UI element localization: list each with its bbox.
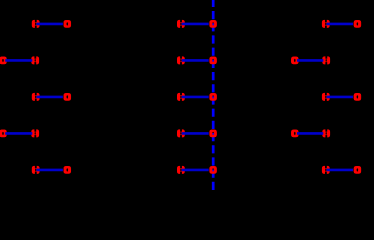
molecule C4 xyxy=(291,129,329,138)
molecule A2 xyxy=(0,56,39,65)
bond O–O of B3 xyxy=(182,96,209,99)
atom O (tail) of A4 xyxy=(32,129,39,138)
bond O–O of A3 xyxy=(37,96,63,99)
bond O–O of A2 xyxy=(5,59,32,62)
atom O (tail) of B1 xyxy=(177,19,184,28)
molecule A5 xyxy=(32,165,71,174)
molecule C5 xyxy=(322,165,361,174)
atom O (head) of B3 xyxy=(210,93,217,100)
bond O–O of A5 xyxy=(37,169,63,172)
bond O–O of A4 xyxy=(5,132,32,135)
molecule C1 xyxy=(322,19,361,28)
atom O (head) of A5 xyxy=(64,166,71,173)
bond O–O of B5 xyxy=(182,169,209,172)
atom O (tail) of C5 xyxy=(322,165,329,174)
atom O (tail) of C3 xyxy=(322,92,329,101)
molecule B4 xyxy=(177,129,216,138)
atom O (head) of C1 xyxy=(354,20,361,27)
bond O–O of B1 xyxy=(182,23,209,26)
atom O (head) of B4 xyxy=(210,130,217,137)
atom O (tail) of B4 xyxy=(177,129,184,138)
bond O–O of C3 xyxy=(327,96,353,99)
atom O (head) of C3 xyxy=(354,93,361,100)
atom O (tail) of A3 xyxy=(32,92,39,101)
symmetry axis: vertical dashed blue line xyxy=(212,0,215,192)
molecule B5 xyxy=(177,165,216,174)
molecule B3 xyxy=(177,92,216,101)
bond O–O of C1 xyxy=(327,23,353,26)
molecule B1 xyxy=(177,19,216,28)
atom O (head) of C2 xyxy=(291,57,298,64)
atom O (tail) of A5 xyxy=(32,165,39,174)
bond O–O of C4 xyxy=(297,132,323,135)
atom O (head) of A2 xyxy=(0,57,7,64)
molecule C2 xyxy=(291,56,329,65)
atom O (head) of B5 xyxy=(210,166,217,173)
bond O–O of B4 xyxy=(182,132,209,135)
atom O (tail) of A2 xyxy=(32,56,39,65)
molecule A4 xyxy=(0,129,39,138)
atom O (tail) of C1 xyxy=(322,19,329,28)
molecule C3 xyxy=(322,92,361,101)
atom O (tail) of B3 xyxy=(177,92,184,101)
bond O–O of B2 xyxy=(182,59,209,62)
atom O (tail) of B5 xyxy=(177,165,184,174)
atom O (head) of A4 xyxy=(0,130,7,137)
atom O (head) of C4 xyxy=(291,130,298,137)
atom O (tail) of C2 xyxy=(323,56,330,65)
molecule A3 xyxy=(32,92,71,101)
molecule B2 xyxy=(177,56,216,65)
atom O (tail) of B2 xyxy=(177,56,184,65)
molecule A1 xyxy=(32,19,71,28)
bond O–O of A1 xyxy=(37,23,63,26)
atom O (tail) of C4 xyxy=(323,129,330,138)
atom O (head) of A1 xyxy=(64,20,71,27)
atom O (tail) of A1 xyxy=(32,19,39,28)
atom O (head) of B1 xyxy=(210,20,217,27)
atom O (head) of B2 xyxy=(210,57,217,64)
bond O–O of C2 xyxy=(297,59,323,62)
atom O (head) of A3 xyxy=(64,93,71,100)
bond O–O of C5 xyxy=(327,169,353,172)
atom O (head) of C5 xyxy=(354,166,361,173)
